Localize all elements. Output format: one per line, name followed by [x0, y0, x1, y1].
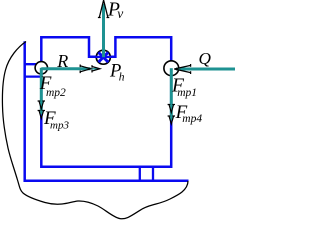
bottom rail tick left [139, 167, 141, 181]
svg-text:тр3: тр3 [50, 119, 69, 131]
force Q arrowhead [174, 64, 190, 74]
break line (broken-away wall and ground) [2, 42, 188, 219]
left wall connector tick upper [24, 63, 42, 65]
force P_v arrowhead [98, 0, 109, 17]
svg-text:тр1: тр1 [177, 87, 197, 99]
force F_mp2 / F_mp3 line (down from left pin) [40, 68, 43, 115]
force R / P_h line (horizontal right from left pin) [41, 67, 90, 70]
support outline (left wall + bottom rail) [25, 41, 189, 181]
svg-text:h: h [119, 72, 125, 84]
bottom rail tick right [152, 167, 154, 181]
svg-text:v: v [117, 6, 123, 21]
force R arrowhead [80, 65, 91, 74]
hinge circle with spokes (top notch pin) [96, 50, 111, 64]
svg-text:R: R [56, 51, 68, 71]
pin circle right (on block right edge) [164, 61, 179, 76]
pin circle left (on block left edge) [35, 62, 47, 74]
force Q line (horizontal left into right pin) [176, 68, 235, 71]
force F_mp4 arrowhead [168, 116, 175, 124]
force F_mp3 arrowhead [38, 111, 45, 119]
left wall connector tick lower [24, 75, 42, 77]
force P_v line (vertical up from hinge) [102, 4, 105, 57]
svg-text:тр4: тр4 [182, 113, 202, 125]
force F_mp1 arrowhead [168, 105, 175, 113]
force P_h arrowhead [92, 65, 100, 72]
force F_mp2 arrowhead [38, 101, 45, 109]
svg-text:Q: Q [199, 49, 212, 68]
svg-text:тр2: тр2 [46, 87, 66, 99]
main block outline with top notch [41, 37, 171, 167]
force F_mp1 / F_mp4 line (down from right pin) [170, 68, 173, 120]
